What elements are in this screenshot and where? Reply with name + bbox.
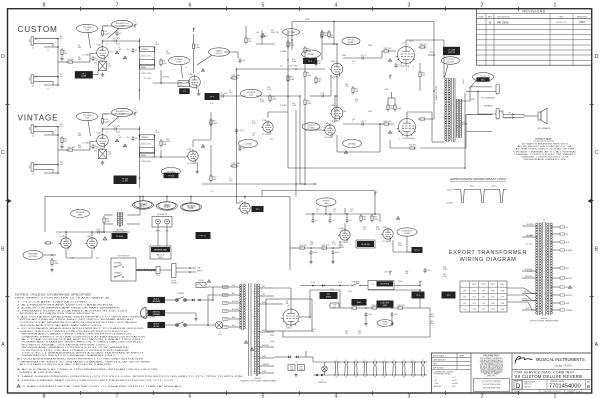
svg-text:V6A: V6A xyxy=(331,60,336,63)
pot REVERB mix xyxy=(71,210,90,218)
svg-text:1/2 12AT7: 1/2 12AT7 xyxy=(330,119,340,122)
svg-text:EXPORT TRANSFORMER: EXPORT TRANSFORMER xyxy=(449,250,527,256)
svg-text:460V: 460V xyxy=(305,19,310,21)
wire screen risers xyxy=(419,63,421,70)
svg-text:C: C xyxy=(1,150,5,156)
wire heater row bottom xyxy=(313,374,427,376)
tube V7 6V6 power xyxy=(398,47,415,64)
wire bass pot leader xyxy=(197,55,212,65)
svg-text:V7: V7 xyxy=(393,377,395,379)
resistor R70 dropping xyxy=(298,247,300,249)
svg-text:C40: C40 xyxy=(368,314,371,316)
flag B+ custom xyxy=(134,25,136,28)
svg-text:(GREEN): (GREEN) xyxy=(153,314,161,316)
svg-text:C14 .1: C14 .1 xyxy=(239,130,245,132)
AC plug P1 xyxy=(141,308,147,319)
svg-text:1: 1 xyxy=(94,132,95,134)
svg-text:DOMESTIC 120V POWER TRANSFORME: DOMESTIC 120V POWER TRANSFORMER xyxy=(240,379,277,382)
svg-text:CUSTOM: CUSTOM xyxy=(18,25,58,34)
svg-text:RED/BLK: RED/BLK xyxy=(566,295,574,297)
svg-text:BOOSTER: BOOSTER xyxy=(380,284,389,286)
dark box bias boost xyxy=(352,300,366,306)
resistor R41 screen stop xyxy=(419,70,421,72)
dark box TP5 red xyxy=(442,292,455,298)
svg-text:1: 1 xyxy=(28,165,30,169)
svg-text:6: 6 xyxy=(107,132,108,134)
triangle warning custom 1 xyxy=(115,51,118,54)
svg-text:100: 100 xyxy=(358,333,361,335)
svg-text:250KC: 250KC xyxy=(176,62,182,64)
svg-text:V2: V2 xyxy=(345,377,347,379)
wire table to transformer xyxy=(507,288,535,294)
resistor R62 xyxy=(350,307,352,309)
svg-text:V9: V9 xyxy=(412,377,414,379)
svg-text:RED/YEL: RED/YEL xyxy=(525,276,532,278)
svg-text:CP7: CP7 xyxy=(491,297,495,299)
tube V5A vibrato osc xyxy=(340,230,350,240)
pot TP26 ellipse xyxy=(473,73,494,82)
svg-text:11.5K 5W: 11.5K 5W xyxy=(361,244,370,246)
wire coupling to tone 2 xyxy=(118,128,139,130)
wire custom out to mixer xyxy=(225,95,246,97)
svg-text:AC VOLTAGES MEASURED WITH RESP: AC VOLTAGES MEASURED WITH RESPECT TO GRO… xyxy=(17,358,144,361)
svg-text:1/2 12AX7: 1/2 12AX7 xyxy=(339,241,349,244)
dark box vibrato tp xyxy=(252,207,263,212)
svg-text:100K: 100K xyxy=(195,47,200,49)
wire right enclosure vertical xyxy=(464,93,466,168)
svg-text:POWER: POWER xyxy=(177,293,185,295)
svg-text:V4B: V4B xyxy=(239,201,244,203)
svg-text:1: 1 xyxy=(28,77,30,81)
transformer T4 right leads xyxy=(551,226,560,228)
resistor R63 xyxy=(370,307,372,309)
svg-text:PROPRIETARY: PROPRIETARY xyxy=(483,355,500,358)
svg-text:CHANNEL CONTROLS FULL CCW,: CHANNEL CONTROLS FULL CCW, xyxy=(521,156,570,159)
jack J6 main speaker xyxy=(496,109,499,120)
svg-text:SMH 05-17: SMH 05-17 xyxy=(524,384,532,386)
capacitor C20 PI coupling top xyxy=(360,57,362,59)
wire screen bus xyxy=(428,54,434,56)
svg-text:220K: 220K xyxy=(307,103,312,105)
triangle warning vintage 3 xyxy=(201,145,204,148)
tube V4B reverb xyxy=(87,238,97,248)
resistor R36 screen V8 xyxy=(418,118,420,120)
svg-text:REVERB AND VIBRATO CONTROLS FU: REVERB AND VIBRATO CONTROLS FULL CCW (MI… xyxy=(22,346,131,349)
svg-text:2: 2 xyxy=(28,39,30,43)
svg-text:1M: 1M xyxy=(318,63,321,65)
input jack J3 (vintage input 1) xyxy=(31,163,34,172)
svg-text:(RED): (RED) xyxy=(383,305,388,307)
wire bottom tie xyxy=(420,307,430,309)
wire V2A plate to B+ xyxy=(102,114,104,117)
svg-text:220K: 220K xyxy=(307,75,312,77)
wire V2B out xyxy=(196,163,198,170)
wire V2B plate up xyxy=(192,140,194,147)
svg-text:RETURN): RETURN) xyxy=(29,256,38,258)
svg-text:VINTAGE CHANNEL AT 11c, ALL NO: VINTAGE CHANNEL AT 11c, ALL NORMAL xyxy=(514,150,577,153)
svg-text:YEL: YEL xyxy=(566,227,569,229)
resistor R9 xyxy=(304,70,306,72)
resistor R45 reverb xyxy=(103,216,105,218)
inductor L1 booster box xyxy=(368,281,394,290)
svg-text:PR 2845: PR 2845 xyxy=(497,20,509,24)
svg-text:2: 2 xyxy=(204,83,205,85)
capacitor C3 xyxy=(132,48,134,50)
resistor R28 mixer upper xyxy=(287,40,289,42)
tube V1A triode xyxy=(97,47,109,59)
svg-text:V5A: V5A xyxy=(339,227,344,230)
capacitor C4 coupling xyxy=(220,95,222,97)
svg-text:BLU/WHT: BLU/WHT xyxy=(527,235,534,237)
svg-text:1.4V: 1.4V xyxy=(109,52,114,54)
transformer T1 secondary xyxy=(456,99,458,137)
svg-text:CP5: CP5 xyxy=(482,309,486,311)
svg-text:CP4: CP4 xyxy=(463,309,467,311)
svg-text:CR3: CR3 xyxy=(330,289,334,291)
svg-text:1. #1,2,5,8 ARE 12AX7A-C(TSE): 1. #1,2,5,8 ARE 12AX7A-C(TSE). xyxy=(17,300,89,303)
svg-text:WHT/BLU: WHT/BLU xyxy=(522,299,530,301)
tube V3A reverb driver xyxy=(263,122,273,132)
svg-text:4 5: 4 5 xyxy=(345,360,347,362)
resistor R50 osc xyxy=(360,214,362,216)
wire mains routing xyxy=(187,299,191,301)
transformer primary CP taps xyxy=(223,286,229,289)
wire vintage jack 1 wires xyxy=(37,164,58,166)
input jack J1 (custom input 1) xyxy=(31,75,34,84)
wire bias vertical drops xyxy=(365,317,367,322)
transformer T3 reverb driver xyxy=(117,212,119,225)
svg-text:V6B: V6B xyxy=(331,105,336,107)
svg-text:TP 31: TP 31 xyxy=(414,250,420,252)
svg-text:R2 68K: R2 68K xyxy=(68,59,75,61)
pot B+ test ellipse xyxy=(283,29,300,36)
triangle warning vintage 2 xyxy=(123,144,126,147)
svg-text:P106: P106 xyxy=(156,275,160,277)
resistor R32 grid V7 xyxy=(382,50,384,52)
svg-text:V1: V1 xyxy=(336,377,338,379)
dark box mains black lead xyxy=(148,297,165,302)
transformer T2 secondary winding xyxy=(254,284,256,374)
capacitor C52 filter xyxy=(332,250,334,252)
wire chain to booster xyxy=(360,285,368,287)
svg-text:R42 820: R42 820 xyxy=(409,145,416,147)
switch S5 standby xyxy=(351,285,352,286)
svg-text:WITH AC LINE AT 120V 60Hz, NO: WITH AC LINE AT 120V 60Hz, NO INPUT SIGN… xyxy=(20,318,137,321)
wire V3A connections xyxy=(267,112,269,118)
svg-text:V8 6V6GTA: V8 6V6GTA xyxy=(402,137,414,140)
svg-text:.01: .01 xyxy=(349,220,352,222)
svg-text:RFD:: RFD: xyxy=(433,364,438,366)
wire reverb return xyxy=(43,254,56,256)
svg-text:250K-LONG: 250K-LONG xyxy=(141,55,151,57)
svg-text:C6: C6 xyxy=(95,146,97,148)
pot TREBLE vintage xyxy=(133,201,154,209)
svg-text:CP8: CP8 xyxy=(501,303,505,305)
wire vintage stage vertical xyxy=(210,145,212,176)
svg-text:3: 3 xyxy=(413,67,414,69)
dark box mixer tp xyxy=(304,59,317,64)
svg-text:C2 .022: C2 .022 xyxy=(114,38,121,40)
svg-text:4 5: 4 5 xyxy=(355,360,357,362)
svg-text:REVERB AMPLIFIER: REVERB AMPLIFIER xyxy=(483,386,501,389)
svg-text:ANGLES: ANGLES xyxy=(434,385,442,388)
capacitor C2 coupling custom xyxy=(113,40,115,42)
wire vibrato channel vertical xyxy=(236,69,238,203)
svg-text:TP 103A: TP 103A xyxy=(116,235,123,238)
zone tick marks xyxy=(80,7,82,11)
svg-text:AMP): AMP) xyxy=(158,256,163,259)
svg-text:V6: V6 xyxy=(384,377,386,379)
svg-text:CP7: CP7 xyxy=(501,297,505,299)
svg-text:TP 8: TP 8 xyxy=(256,209,260,211)
svg-text:7: 7 xyxy=(116,2,119,8)
resistor R51 osc xyxy=(371,214,373,216)
capacitor C51 filter xyxy=(310,250,312,252)
svg-text:2: 2 xyxy=(28,127,30,131)
svg-text:(15VAC): (15VAC) xyxy=(139,203,147,206)
svg-text:6: 6 xyxy=(189,2,192,8)
svg-text:1/2W: 1/2W xyxy=(290,369,294,371)
svg-text:2: 2 xyxy=(481,393,484,398)
pot reverb drive ellipse 2 xyxy=(158,202,176,210)
pot BRIGHT custom xyxy=(112,20,133,28)
svg-text:ZONE: ZONE xyxy=(479,16,485,18)
svg-text:3.3M: 3.3M xyxy=(292,61,296,63)
svg-text:100V: 100V xyxy=(463,79,465,84)
diode D1 bias xyxy=(287,356,289,358)
svg-text:3: 3 xyxy=(408,393,411,398)
svg-text:(40.4PK): (40.4PK) xyxy=(163,77,170,79)
resistor R16 xyxy=(160,139,162,141)
svg-text:4 5: 4 5 xyxy=(384,360,386,362)
wire rca to pan xyxy=(157,224,159,246)
svg-text:.047: .047 xyxy=(229,180,233,182)
svg-text:B: B xyxy=(1,247,5,253)
wire bias feed xyxy=(336,135,338,152)
svg-text:J2: J2 xyxy=(47,50,49,52)
svg-text:±0.02": ±0.02" xyxy=(452,380,457,382)
svg-text:1/2 12AT7: 1/2 12AT7 xyxy=(330,75,340,78)
transformer T2 secondary leads xyxy=(259,287,275,289)
ground V1A cathode xyxy=(102,73,104,75)
svg-text:20 WATTS MINIMUM RMS INTO: 20 WATTS MINIMUM RMS INTO xyxy=(522,143,569,146)
wire center links xyxy=(304,130,306,184)
svg-text:CONTROLS FULL CW: ALL OTHER CO: CONTROLS FULL CW: ALL OTHER CONTROLS MID… xyxy=(22,349,131,352)
svg-text:CP2: CP2 xyxy=(463,297,467,299)
lamp L1 pilot xyxy=(322,366,328,372)
svg-text:250P: 250P xyxy=(272,99,277,101)
wire custom input bus xyxy=(57,39,59,85)
tube V2B triode xyxy=(188,151,198,161)
resistor R71 dropping xyxy=(320,247,322,249)
svg-text:5: 5 xyxy=(398,67,399,69)
svg-text:V4: V4 xyxy=(364,377,366,379)
triangle warning custom 2 xyxy=(123,56,126,59)
svg-text:CP3: CP3 xyxy=(463,303,467,305)
svg-text:CP2: CP2 xyxy=(224,295,227,297)
svg-text:1/2 12AX7: 1/2 12AX7 xyxy=(187,162,197,165)
svg-text:1/2 12AX7: 1/2 12AX7 xyxy=(82,142,90,145)
wire speaker leads xyxy=(503,114,524,116)
dark box MASTER tp xyxy=(205,94,219,100)
svg-text:455V: 455V xyxy=(430,52,435,54)
svg-text:(+)50V: (+)50V xyxy=(447,189,453,191)
pot OT ellipse xyxy=(442,57,460,65)
svg-text:4 5: 4 5 xyxy=(403,360,405,362)
tube V5B vibrato osc xyxy=(383,229,393,239)
svg-text:CHECKED: DD-01-01: CHECKED: DD-01-01 xyxy=(543,391,561,393)
svg-text:CP6: CP6 xyxy=(482,290,486,292)
ground vintage input xyxy=(61,145,63,147)
svg-text:R22 220K: R22 220K xyxy=(232,163,241,165)
wire vintage input bus xyxy=(57,127,59,173)
wire PI grid net xyxy=(310,95,320,97)
svg-text:5: 5 xyxy=(262,2,265,8)
svg-text:Corona, CA USA: Corona, CA USA xyxy=(554,364,572,367)
resistor R34 tail xyxy=(352,86,354,88)
wire vibrato tube net xyxy=(236,202,241,204)
svg-text:(2.0VAC): (2.0VAC) xyxy=(307,127,315,130)
svg-text:250K-LONG: 250K-LONG xyxy=(141,73,151,75)
dark box mains white lead xyxy=(148,322,165,327)
svg-text:WIRING DIAGRAM: WIRING DIAGRAM xyxy=(460,257,517,263)
svg-text:GZ34: GZ34 xyxy=(286,328,292,330)
svg-text:C10: C10 xyxy=(242,60,245,62)
svg-text:.01: .01 xyxy=(315,220,318,222)
svg-text:C41: C41 xyxy=(394,314,397,316)
capacitor C32 osc xyxy=(346,218,348,220)
svg-text:TYP. 6.3V ± 1 (MEASURED) WITH: TYP. 6.3V ± 1 (MEASURED) WITH A 1mA/V TO… xyxy=(22,352,145,355)
svg-text:REVERB AND VIBRATO OFF.: REVERB AND VIBRATO OFF. xyxy=(524,158,567,161)
svg-text:.022: .022 xyxy=(126,137,129,139)
svg-text:CR4: CR4 xyxy=(348,291,352,293)
svg-text:GRN: GRN xyxy=(470,99,475,101)
wire OT secondary to jacks xyxy=(460,87,492,101)
svg-text:100: 100 xyxy=(345,333,348,335)
svg-text:.022: .022 xyxy=(118,49,122,51)
capacitor C21 PI coupling bottom xyxy=(360,123,362,125)
cathode network box V1A xyxy=(99,62,107,71)
resistor R2 68K xyxy=(66,61,68,63)
transformer T2 primary leads xyxy=(228,286,241,288)
wire reverb out xyxy=(65,250,67,259)
svg-text:CP5: CP5 xyxy=(491,309,495,311)
svg-text:.022: .022 xyxy=(126,49,129,51)
rectifier enclosure xyxy=(266,299,312,331)
wire treble pot leader xyxy=(181,65,183,78)
svg-text:VIBRATO: VIBRATO xyxy=(114,272,122,275)
svg-text:022913: 022913 xyxy=(448,52,456,54)
foot pedal jack xyxy=(172,264,177,278)
dark box TP103A xyxy=(112,234,127,239)
svg-text:REVERB PAN: REVERB PAN xyxy=(154,248,167,251)
wire rail to osc xyxy=(339,241,341,248)
svg-text:GRN/YEL: GRN/YEL xyxy=(566,310,573,312)
capacitor C6 bypass xyxy=(92,144,94,146)
resistor R61 47 ohm xyxy=(298,365,305,371)
triangle warning reverb jack xyxy=(103,237,107,240)
svg-text:(1.6VAC): (1.6VAC) xyxy=(280,104,287,107)
svg-text:R63 27K: R63 27K xyxy=(372,305,380,307)
resistor R17 plate V2B xyxy=(210,118,212,120)
svg-text:D: D xyxy=(1,54,5,60)
svg-text:25KB: 25KB xyxy=(383,324,388,326)
capacitor C15 top xyxy=(261,34,263,36)
tone spec box BASS vintage xyxy=(140,152,155,157)
flag F osc xyxy=(374,193,376,196)
svg-text:ALL OTHER CONTROLS SET PER NOT: ALL OTHER CONTROLS SET PER NOTE 5 ABOVE. xyxy=(20,363,113,366)
svg-text:1M: 1M xyxy=(363,219,366,221)
svg-text:460V: 460V xyxy=(409,41,414,43)
transformer T4 core xyxy=(542,222,544,316)
svg-text:RCA JACKS: RCA JACKS xyxy=(157,213,168,216)
wire osc intensity link xyxy=(406,236,408,252)
triangle warning rect2 xyxy=(250,348,253,351)
wire B+ filter rail xyxy=(310,289,340,291)
svg-text:APPROVALS: APPROVALS xyxy=(433,354,445,357)
svg-text:05 JUL 17: 05 JUL 17 xyxy=(556,22,567,24)
svg-text:BLU/GRN: BLU/GRN xyxy=(525,269,533,271)
svg-text:CP8: CP8 xyxy=(491,303,495,305)
resistor R40 xyxy=(51,258,53,260)
resistor R30 PI plate xyxy=(321,30,323,32)
svg-text:R12 68K: R12 68K xyxy=(68,147,76,149)
wire bottom bus vintage xyxy=(45,196,290,198)
switch S1 power pole B xyxy=(165,324,176,326)
transformer T1 core xyxy=(451,78,453,142)
transformer T4 left leads xyxy=(522,225,537,227)
dark box intensity tp xyxy=(412,248,422,253)
svg-text:ALL TONE CONTROLS AT MID ROTAT: ALL TONE CONTROLS AT MID ROTATION, LINE … xyxy=(22,338,145,341)
svg-text:SCALE: ---: SCALE: --- xyxy=(514,390,523,393)
svg-text:(PAN): (PAN) xyxy=(78,214,83,217)
resistor R40b bias stack xyxy=(394,103,396,105)
capacitor C30 osc xyxy=(312,218,314,220)
svg-text:V3: V3 xyxy=(355,377,357,379)
wire bias line xyxy=(274,356,287,358)
svg-text:(25VAC): (25VAC) xyxy=(187,206,195,209)
wire OT label leader xyxy=(445,65,449,78)
resistor R3 100K plate xyxy=(102,29,104,31)
svg-text:B: B xyxy=(489,20,491,24)
resistor R20 mix custom xyxy=(230,77,232,79)
svg-text:C20: C20 xyxy=(280,66,283,68)
pot BASS vintage xyxy=(157,202,178,210)
svg-text:4 5: 4 5 xyxy=(364,360,366,362)
svg-text:CP7: CP7 xyxy=(472,303,476,305)
pot mid ellipse xyxy=(239,140,258,148)
svg-text:GRN/YEL: GRN/YEL xyxy=(566,250,573,252)
wire heater row top xyxy=(313,361,427,363)
svg-text:R64 15K: R64 15K xyxy=(398,305,406,307)
svg-text:50KB: 50KB xyxy=(249,95,254,97)
svg-text:B: B xyxy=(587,384,590,389)
resistor R46 reverb mix xyxy=(44,242,46,244)
svg-text:V3B: V3B xyxy=(60,236,65,238)
svg-text:A. AC VOLTAGES AT 770Hz & TP5: A. AC VOLTAGES AT 770Hz & TP50 MEASURED … xyxy=(17,368,159,371)
svg-text:TREBLE: TREBLE xyxy=(141,49,149,51)
svg-text:NOTES: UNLESS OTHERWISE SPECIF: NOTES: UNLESS OTHERWISE SPECIFIED xyxy=(15,293,91,297)
connector P10 pins xyxy=(312,285,314,287)
transformer T2 core xyxy=(248,283,250,376)
svg-text:30ms: 30ms xyxy=(470,185,475,187)
wire oscillator enclosure top xyxy=(262,190,375,192)
svg-text:'68 CUSTOM DELUXE REVERB: '68 CUSTOM DELUXE REVERB xyxy=(514,374,582,379)
capacitor C1 22uF bypass xyxy=(92,56,94,58)
wire osc supply xyxy=(344,208,346,214)
svg-text:REVERB AND VIBRATO SWITCHES OF: REVERB AND VIBRATO SWITCHES OFF WITH FOO… xyxy=(22,333,133,336)
dark box TP1 xyxy=(75,72,92,78)
